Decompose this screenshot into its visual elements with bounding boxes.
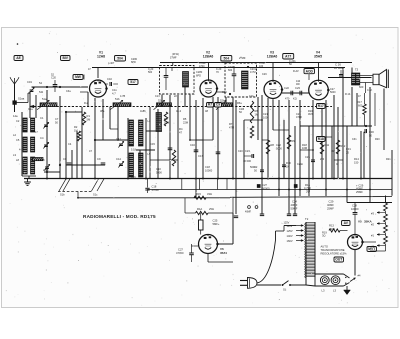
svg-text:4-5: 4-5 <box>19 149 23 152</box>
svg-text:R21: R21 <box>386 158 391 161</box>
svg-text:OUT: OUT <box>335 258 342 262</box>
svg-text:12A8: 12A8 <box>97 55 105 59</box>
svg-text:C11: C11 <box>112 88 117 92</box>
svg-text:C1b: C1b <box>249 95 254 98</box>
svg-text:RADIOMARELLI - MOD. RD175: RADIOMARELLI - MOD. RD175 <box>83 214 156 219</box>
svg-text:25MF: 25MF <box>356 190 363 194</box>
svg-text:C25: C25 <box>305 155 310 159</box>
svg-text:4M7: 4M7 <box>308 113 313 116</box>
svg-text:3Ω: 3Ω <box>322 234 325 238</box>
svg-text:C18: C18 <box>205 165 210 169</box>
svg-text:C20: C20 <box>238 150 243 153</box>
svg-text:C17: C17 <box>198 154 203 158</box>
svg-text:C·: C· <box>336 163 339 166</box>
svg-text:BIV: BIV <box>63 56 69 60</box>
svg-text:10 000: 10 000 <box>243 159 251 163</box>
svg-text:R16: R16 <box>305 183 310 187</box>
svg-text:C2: C2 <box>16 119 20 123</box>
svg-text:C16: C16 <box>190 143 195 147</box>
svg-text:5000: 5000 <box>330 91 336 94</box>
svg-text:R.2: R.2 <box>84 102 89 105</box>
svg-text:L3: L3 <box>13 153 16 157</box>
svg-text:40MF: 40MF <box>327 203 334 207</box>
svg-text:25Ω: 25Ω <box>209 207 214 211</box>
svg-text:6PD: 6PD <box>196 73 201 77</box>
svg-text:R18: R18 <box>318 137 324 141</box>
svg-text:R.1b: R.1b <box>345 93 351 96</box>
svg-text:54: 54 <box>39 81 42 85</box>
svg-text:470: 470 <box>285 97 290 101</box>
svg-text:R4: R4 <box>179 127 183 131</box>
svg-text:TRASFORMATORE: TRASFORMATORE <box>321 248 345 252</box>
svg-text:C23b: C23b <box>297 163 304 166</box>
svg-text:33Ω: 33Ω <box>207 192 212 196</box>
svg-text:160V: 160V <box>287 239 293 243</box>
svg-text:C8: C8 <box>41 158 45 162</box>
svg-text:C23: C23 <box>295 86 300 90</box>
svg-text:600: 600 <box>358 103 363 107</box>
svg-text:T2: T2 <box>305 217 309 221</box>
svg-text:AUTO: AUTO <box>321 245 328 249</box>
svg-text:47: 47 <box>179 130 182 134</box>
svg-text:600: 600 <box>228 69 233 72</box>
svg-text:5MF+: 5MF+ <box>213 222 220 226</box>
svg-text:10000: 10000 <box>205 168 213 172</box>
svg-text:47000: 47000 <box>152 188 160 192</box>
svg-text:4x86: 4x86 <box>140 109 146 113</box>
svg-text:40MF: 40MF <box>356 187 363 191</box>
svg-text:L2: L2 <box>13 133 16 137</box>
svg-text:R14: R14 <box>354 157 359 161</box>
svg-text:C19: C19 <box>27 80 32 84</box>
svg-text:R8: R8 <box>271 143 275 147</box>
svg-text:R15: R15 <box>196 192 201 196</box>
svg-text:47000: 47000 <box>176 251 184 255</box>
svg-text:(M.W): (M.W) <box>172 53 179 56</box>
svg-text:5000: 5000 <box>276 146 282 150</box>
svg-text:R6: R6 <box>255 109 259 113</box>
svg-text:R7: R7 <box>229 122 233 126</box>
svg-text:2ªMF: 2ªMF <box>239 56 246 60</box>
svg-text:C27: C27 <box>178 248 183 252</box>
svg-text:C7: C7 <box>55 117 59 121</box>
svg-text:500: 500 <box>148 71 153 74</box>
svg-text:C28: C28 <box>352 204 357 208</box>
svg-text:100: 100 <box>259 65 264 68</box>
svg-text:51a: 51a <box>42 97 47 101</box>
svg-text:R10: R10 <box>286 161 291 165</box>
svg-text:4700: 4700 <box>296 115 302 119</box>
svg-text:C5: C5 <box>16 138 20 142</box>
svg-text:L3: L3 <box>322 289 325 293</box>
svg-text:R5a: R5a <box>237 102 242 105</box>
svg-text:C22: C22 <box>284 86 289 90</box>
svg-text:C15: C15 <box>150 142 155 146</box>
svg-text:140V: 140V <box>287 234 293 238</box>
svg-text:52: 52 <box>51 73 54 77</box>
svg-text:40MF: 40MF <box>291 203 298 207</box>
svg-text:C1a: C1a <box>28 108 33 111</box>
svg-text:12BA6: 12BA6 <box>267 55 278 59</box>
svg-text:4700: 4700 <box>199 65 205 68</box>
svg-text:C22: C22 <box>276 143 281 147</box>
svg-text:C31: C31 <box>346 147 351 151</box>
svg-text:5000: 5000 <box>156 170 162 174</box>
svg-text:C27: C27 <box>262 183 267 187</box>
svg-text:1M: 1M <box>255 112 259 116</box>
svg-text:+ C29: + C29 <box>356 183 364 187</box>
svg-text:1M: 1M <box>286 164 290 168</box>
svg-text:T3: T3 <box>355 68 359 72</box>
svg-text:504: 504 <box>117 57 123 61</box>
svg-text:C280: C280 <box>196 70 203 74</box>
svg-text:6PD: 6PD <box>131 61 136 64</box>
svg-text:←125V: ←125V <box>281 222 290 225</box>
svg-text:10000: 10000 <box>351 207 359 211</box>
svg-text:14a: 14a <box>13 114 18 118</box>
svg-text:22M: 22M <box>183 120 188 124</box>
svg-text:150: 150 <box>354 160 359 164</box>
svg-text:C13: C13 <box>155 95 160 98</box>
svg-text:5.18: 5.18 <box>131 149 136 152</box>
svg-text:52b: 52b <box>220 99 225 103</box>
svg-text:C4: C4 <box>68 142 72 146</box>
svg-text:V5: V5 <box>358 220 362 224</box>
svg-text:R5: R5 <box>183 117 187 121</box>
svg-text:R1: R1 <box>87 114 91 118</box>
svg-text:L3: L3 <box>333 289 336 293</box>
svg-text:C6: C6 <box>63 157 67 161</box>
svg-text:35A5: 35A5 <box>314 55 322 59</box>
svg-text:C9: C9 <box>97 157 101 161</box>
svg-text:110V: 110V <box>287 224 293 228</box>
svg-text:C3a: C3a <box>66 90 71 93</box>
svg-text:125V: 125V <box>287 229 293 233</box>
svg-text:S1aa: S1aa <box>18 97 25 101</box>
svg-text:R2: R2 <box>74 125 78 129</box>
svg-text:S1c: S1c <box>93 193 98 197</box>
svg-text:R.AV: R.AV <box>293 70 299 73</box>
svg-text:1W: 1W <box>331 150 335 153</box>
svg-text:S3: S3 <box>283 288 287 292</box>
svg-text:41.2: 41.2 <box>176 109 182 113</box>
svg-text:C14: C14 <box>116 157 121 161</box>
svg-text:AE: AE <box>16 56 21 60</box>
svg-text:C4: C4 <box>40 136 44 140</box>
svg-text:R17: R17 <box>318 104 324 108</box>
svg-text:C16: C16 <box>131 176 136 179</box>
svg-text:10 000: 10 000 <box>334 66 343 70</box>
svg-text:A77: A77 <box>285 55 291 59</box>
svg-text:MW: MW <box>75 75 82 79</box>
svg-text:4.7: 4.7 <box>112 91 116 95</box>
svg-text:4 700: 4 700 <box>304 186 311 190</box>
svg-text:R11: R11 <box>325 143 330 147</box>
svg-text:C21: C21 <box>263 112 268 116</box>
svg-text:C18: C18 <box>152 185 157 189</box>
svg-text:1M: 1M <box>74 128 78 132</box>
svg-text:C29: C29 <box>262 73 267 76</box>
svg-text:35Z4: 35Z4 <box>220 251 227 255</box>
svg-text:38a: 38a <box>100 109 105 113</box>
svg-text:C24: C24 <box>292 200 297 204</box>
svg-text:p.407: p.407 <box>108 62 115 65</box>
svg-text:54b: 54b <box>39 91 44 94</box>
svg-text:S1b: S1b <box>60 193 65 197</box>
svg-text:KΩ: KΩ <box>293 97 297 101</box>
svg-text:R7: R7 <box>208 103 212 107</box>
svg-text:AOD: AOD <box>306 69 314 73</box>
svg-text:REGOLATORE ±15%: REGOLATORE ±15% <box>321 251 348 255</box>
svg-text:4.7B: 4.7B <box>120 95 125 98</box>
svg-text:C9: C9 <box>216 103 220 107</box>
svg-text:C23: C23 <box>245 149 250 153</box>
svg-text:C29: C29 <box>329 200 334 204</box>
svg-text:10M: 10M <box>302 146 307 150</box>
svg-text:C19: C19 <box>222 91 227 94</box>
svg-text:C10: C10 <box>107 77 112 81</box>
svg-text:50Ω: 50Ω <box>330 227 335 231</box>
svg-text:R20: R20 <box>375 138 380 141</box>
svg-text:2W: 2W <box>306 190 310 194</box>
svg-text:R17: R17 <box>357 100 362 104</box>
svg-text:220: 220 <box>320 158 325 161</box>
svg-text:100: 100 <box>263 115 268 119</box>
svg-text:50MF: 50MF <box>291 206 298 210</box>
svg-text:R9: R9 <box>292 139 296 143</box>
svg-text:517: 517 <box>130 80 136 84</box>
svg-text:C25: C25 <box>213 219 218 223</box>
svg-text:R13: R13 <box>329 224 334 228</box>
svg-text:R1A: R1A <box>197 207 202 211</box>
svg-text:1ªMF: 1ªMF <box>170 56 177 60</box>
svg-text:600: 600 <box>359 85 364 89</box>
svg-text:504: 504 <box>224 57 230 61</box>
svg-text:2-35: 2-35 <box>43 168 49 172</box>
svg-text:5000: 5000 <box>250 166 256 169</box>
svg-text:47M: 47M <box>229 125 234 129</box>
svg-text:50000: 50000 <box>262 187 270 191</box>
svg-text:C31: C31 <box>352 138 357 141</box>
svg-text:4W: 4W <box>296 83 300 86</box>
svg-text:C10: C10 <box>156 167 161 171</box>
svg-text:25MF: 25MF <box>327 206 334 210</box>
svg-text:12BA6: 12BA6 <box>203 55 214 59</box>
svg-text:C1: C1 <box>40 116 44 120</box>
